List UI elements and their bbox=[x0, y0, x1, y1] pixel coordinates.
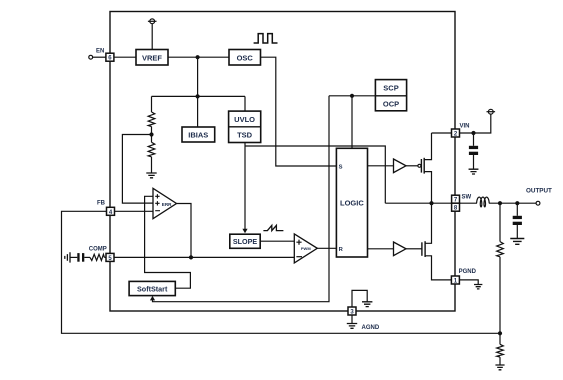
svg-text:COMP: COMP bbox=[89, 246, 107, 252]
svg-text:EN: EN bbox=[96, 49, 104, 55]
svg-text:PWM: PWM bbox=[301, 246, 311, 251]
svg-text:TSD: TSD bbox=[237, 131, 253, 140]
svg-text:OUTPUT: OUTPUT bbox=[526, 188, 552, 195]
svg-text:LOGIC: LOGIC bbox=[340, 198, 364, 207]
svg-text:UVLO: UVLO bbox=[234, 115, 255, 124]
svg-text:SW: SW bbox=[462, 195, 472, 201]
svg-text:ERR: ERR bbox=[162, 202, 172, 207]
svg-text:SoftStart: SoftStart bbox=[137, 284, 168, 293]
svg-text:SCP: SCP bbox=[383, 84, 398, 93]
svg-text:VIN: VIN bbox=[460, 123, 470, 129]
svg-text:AGND: AGND bbox=[362, 325, 380, 331]
svg-text:IBIAS: IBIAS bbox=[188, 131, 208, 140]
svg-text:FB: FB bbox=[97, 201, 106, 207]
svg-text:SLOPE: SLOPE bbox=[233, 237, 258, 246]
svg-text:VREF: VREF bbox=[142, 53, 162, 62]
svg-text:S: S bbox=[339, 165, 343, 171]
svg-text:OCP: OCP bbox=[383, 99, 399, 108]
svg-text:PGND: PGND bbox=[459, 269, 477, 275]
svg-text:OSC: OSC bbox=[237, 53, 254, 62]
